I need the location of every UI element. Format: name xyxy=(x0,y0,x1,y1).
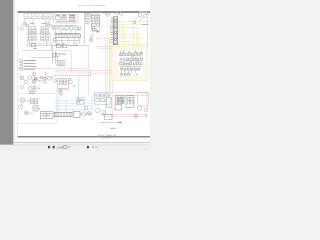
svg-text:Truck crane - wiring diagram: Truck crane - wiring diagram xyxy=(78,4,106,7)
svg-text:TRUCK CRANE 25K: TRUCK CRANE 25K xyxy=(97,134,117,137)
svg-text:11/99: 11/99 xyxy=(57,146,64,149)
svg-text:12-433-07: 12-433-07 xyxy=(102,138,112,140)
